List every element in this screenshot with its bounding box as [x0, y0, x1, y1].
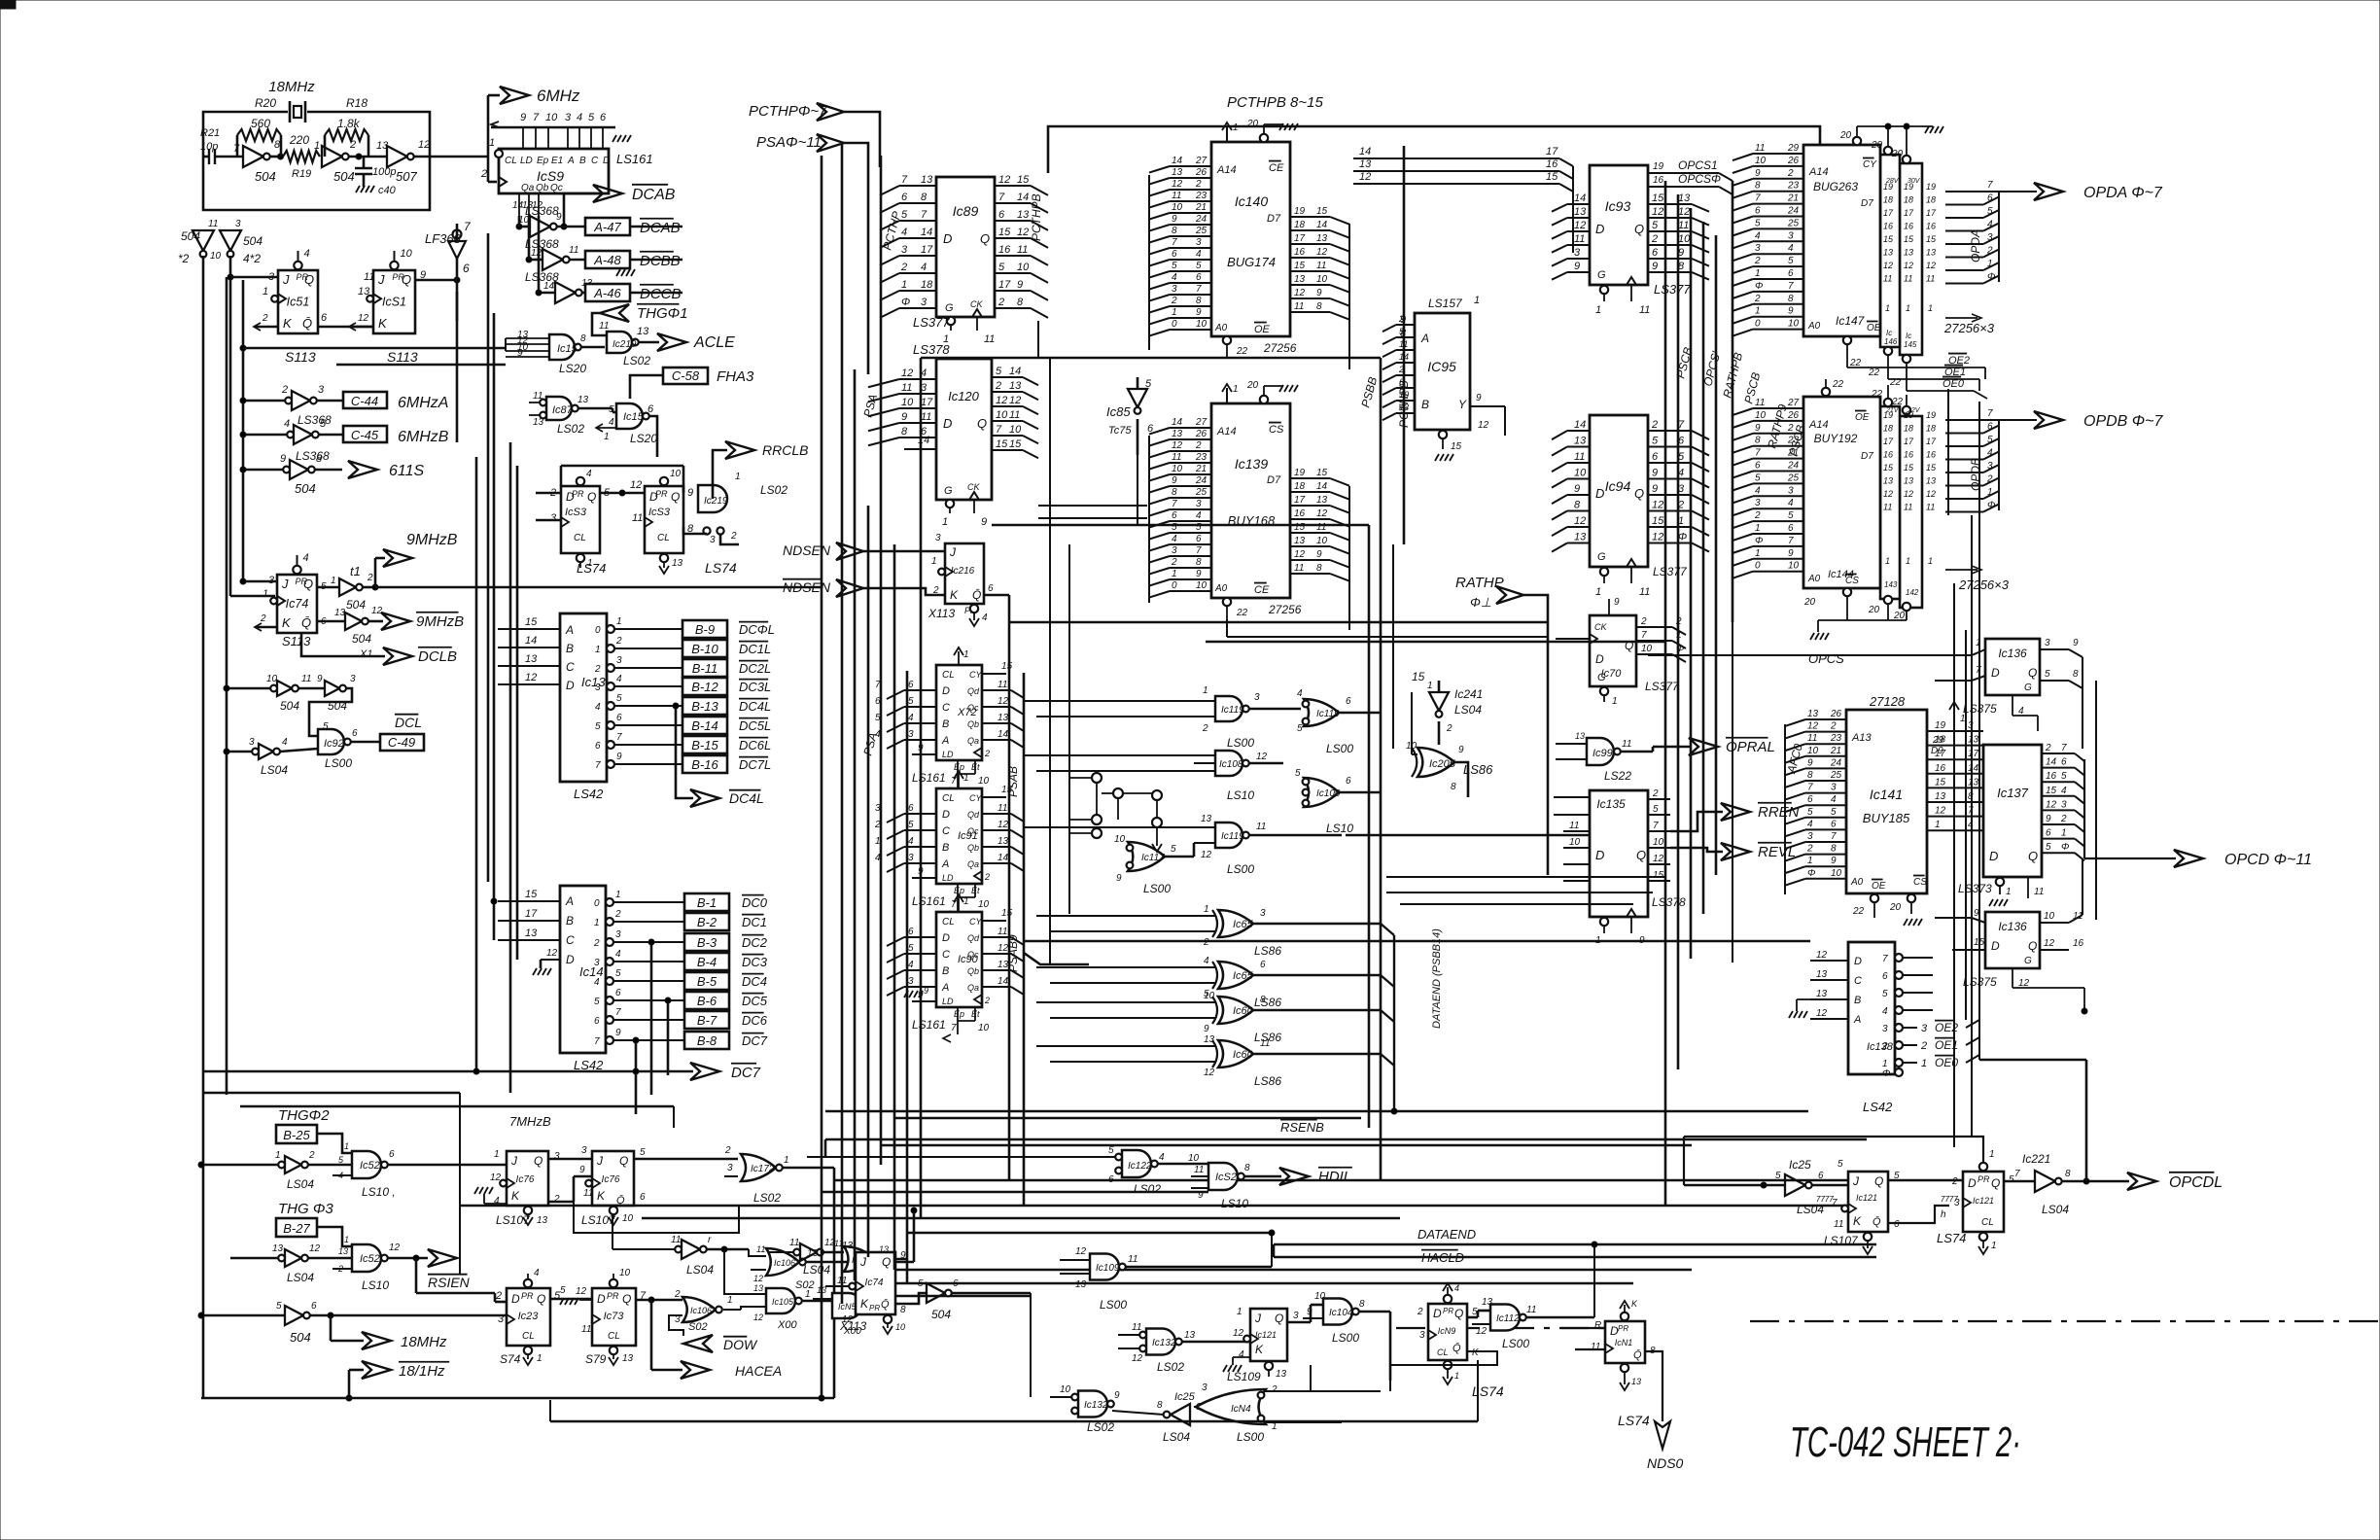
- svg-text:Tc75: Tc75: [1108, 425, 1132, 437]
- svg-text:9: 9: [1316, 549, 1322, 560]
- svg-text:Qb: Qb: [967, 843, 979, 853]
- svg-text:Ic109: Ic109: [1096, 1263, 1120, 1274]
- svg-text:4: 4: [1755, 485, 1761, 496]
- Ic139 left pin ladder: [1170, 427, 1211, 429]
- svg-text:Qc: Qc: [967, 950, 979, 960]
- Ic147 top gnd pins: [1853, 137, 1861, 145]
- svg-text:17: 17: [1294, 233, 1306, 244]
- wire trunk verticals left-center: [475, 457, 478, 1071]
- svg-text:26: 26: [1195, 167, 1207, 178]
- Ic59 CL bubble pin1: [495, 150, 503, 157]
- Ic141 CS bubble pin20: [1907, 894, 1915, 902]
- connector box C-49: [380, 734, 424, 751]
- svg-text:Ep: Ep: [954, 1009, 964, 1019]
- svg-text:1: 1: [314, 140, 320, 152]
- svg-text:2: 2: [615, 636, 622, 647]
- svg-text:OPCD Φ~11: OPCD Φ~11: [2224, 852, 2312, 868]
- svg-text:C-45: C-45: [351, 428, 379, 442]
- decoder Ic14 LS42: [560, 886, 606, 1053]
- output arrow DC7: [612, 1039, 615, 1042]
- svg-text:A-47: A-47: [593, 220, 621, 234]
- or Ic117 LS00: [1128, 842, 1165, 871]
- svg-text:DC5L: DC5L: [739, 718, 771, 733]
- svg-text:Ic74: Ic74: [865, 1277, 884, 1288]
- svg-text:Q: Q: [882, 1255, 891, 1269]
- output arrow HDIL: [1279, 1168, 1309, 1185]
- svg-text:BUY185: BUY185: [1863, 811, 1910, 825]
- svg-text:12: 12: [1883, 261, 1893, 270]
- svg-text:9: 9: [924, 986, 928, 996]
- svg-text:LS00: LS00: [1143, 882, 1171, 895]
- svg-text:507: 507: [396, 169, 417, 184]
- bus trunk verticals right-center: [1664, 181, 1667, 1206]
- wire main osc row: [203, 156, 209, 158]
- BUY192 top pin22 bubbles: [1822, 388, 1830, 396]
- svg-text:6: 6: [1818, 1171, 1824, 1181]
- svg-text:16: 16: [1883, 222, 1893, 231]
- svg-text:2: 2: [1446, 723, 1452, 734]
- svg-text:DC6: DC6: [742, 1013, 768, 1028]
- Ic135 CK chevron pin9: [1627, 909, 1636, 917]
- svg-text:28V: 28V: [1885, 178, 1900, 185]
- svg-text:3: 3: [710, 535, 716, 545]
- svg-text:2: 2: [1754, 256, 1761, 266]
- svg-text:4: 4: [284, 418, 290, 430]
- svg-text:B: B: [1854, 995, 1861, 1006]
- svg-text:12: 12: [630, 479, 642, 491]
- svg-text:6: 6: [988, 583, 994, 594]
- Ic94 left pin ladder: [1567, 430, 1590, 432]
- svg-text:11: 11: [1926, 274, 1935, 284]
- svg-text:LS10 ,: LS10 ,: [362, 1185, 396, 1199]
- svg-text:4: 4: [303, 552, 309, 564]
- svg-text:4: 4: [338, 1171, 343, 1180]
- svg-text:E1: E1: [551, 156, 563, 166]
- inverter 507: [387, 146, 407, 167]
- svg-text:20: 20: [1889, 902, 1902, 913]
- svg-text:Ic121: Ic121: [1856, 1193, 1877, 1203]
- svg-text:15: 15: [1001, 908, 1013, 919]
- svg-text:17: 17: [998, 279, 1011, 291]
- svg-text:3: 3: [235, 219, 241, 229]
- svg-text:25: 25: [1787, 472, 1800, 483]
- svg-text:PR: PR: [572, 489, 584, 499]
- svg-text:3: 3: [1172, 545, 1177, 556]
- Ic70 right stubs: [1636, 626, 1672, 628]
- svg-text:Φ: Φ: [901, 297, 910, 308]
- svg-text:13: 13: [842, 1241, 854, 1251]
- svg-text:Ic216: Ic216: [951, 566, 975, 577]
- svg-text:11: 11: [1294, 563, 1304, 574]
- svg-text:5: 5: [594, 997, 600, 1007]
- rom stack Ic145 third: [1900, 163, 1922, 355]
- svg-text:Q: Q: [619, 1154, 628, 1168]
- svg-text:18: 18: [1926, 195, 1936, 205]
- svg-text:5: 5: [323, 721, 329, 732]
- svg-text:11: 11: [364, 271, 374, 283]
- svg-text:5: 5: [1755, 218, 1761, 228]
- capacitor C41: [208, 149, 210, 164]
- svg-text:1: 1: [1172, 569, 1177, 579]
- svg-text:1: 1: [2006, 887, 2012, 897]
- svg-text:Ic137: Ic137: [1997, 786, 2029, 800]
- svg-text:DCBB: DCBB: [640, 253, 681, 269]
- svg-text:0: 0: [1172, 319, 1177, 330]
- svg-text:OPDA Φ~7: OPDA Φ~7: [2083, 185, 2163, 201]
- svg-text:2: 2: [1171, 557, 1177, 568]
- svg-text:2: 2: [262, 313, 268, 324]
- svg-text:6: 6: [1172, 510, 1177, 521]
- output arrow 18MHz: [330, 1315, 332, 1341]
- svg-text:K: K: [950, 588, 959, 602]
- wire PCTHPB trunk top: [1048, 126, 1820, 173]
- svg-text:LS74: LS74: [1618, 1413, 1650, 1428]
- svg-text:12: 12: [546, 948, 558, 959]
- svg-text:Q: Q: [622, 1292, 631, 1306]
- BUY192 left pin ladder: [1753, 407, 1803, 409]
- svg-text:Qb: Qb: [967, 719, 979, 729]
- svg-text:13: 13: [1816, 969, 1828, 980]
- svg-text:D: D: [566, 679, 575, 692]
- inverter 504 9MHzBbar: [317, 620, 345, 623]
- svg-text:11: 11: [1526, 1305, 1536, 1315]
- svg-text:13: 13: [1009, 380, 1022, 392]
- resistor R18 1.8k: [324, 135, 327, 157]
- output arrow RSIEN: [428, 1249, 457, 1267]
- svg-text:5: 5: [1171, 844, 1176, 855]
- svg-text:Qa: Qa: [521, 183, 535, 193]
- BUY192 bottom pin20 bubbles gnd: [1843, 588, 1851, 596]
- svg-text:1: 1: [494, 1149, 500, 1160]
- svg-text:1: 1: [275, 1150, 281, 1161]
- svg-text:9: 9: [280, 453, 286, 465]
- svg-text:Q: Q: [671, 490, 680, 504]
- svg-text:13: 13: [1172, 429, 1183, 439]
- svg-text:13: 13: [1276, 1369, 1287, 1380]
- wire Ic76 Q cross: [548, 1158, 592, 1161]
- svg-text:10: 10: [996, 409, 1008, 421]
- svg-text:12: 12: [1476, 1326, 1487, 1337]
- svg-text:6: 6: [1196, 534, 1202, 544]
- wire left bus x233: [226, 277, 228, 1095]
- inverter 504 pair B: [298, 687, 325, 690]
- svg-text:16: 16: [2073, 938, 2084, 949]
- svg-text:504: 504: [333, 169, 355, 184]
- svg-text:3: 3: [350, 674, 356, 684]
- svg-text:10: 10: [1316, 536, 1328, 546]
- svg-text:LS377: LS377: [1654, 282, 1691, 297]
- latch Ic136 top LS375: [1985, 639, 2040, 695]
- wire Ic136 bottom collector: [2082, 858, 2083, 915]
- svg-text:17: 17: [1294, 495, 1306, 506]
- svg-text:LS04: LS04: [287, 1177, 314, 1191]
- svg-text:17: 17: [1926, 208, 1937, 218]
- svg-text:2: 2: [1951, 1176, 1958, 1187]
- rom Ic139 BUY168 27256: [1211, 403, 1290, 598]
- nor Ic106b S02: [682, 1297, 716, 1322]
- svg-text:LS377: LS377: [1645, 680, 1680, 693]
- svg-text:4: 4: [1987, 448, 1993, 459]
- svg-text:1.8k: 1.8k: [337, 117, 361, 130]
- svg-text:12: 12: [1574, 220, 1586, 231]
- svg-text:16: 16: [1294, 508, 1306, 519]
- svg-text:LS74: LS74: [1937, 1231, 1966, 1245]
- resistor R19 220: [283, 151, 320, 162]
- flip-flop Ic23 S74: [507, 1288, 550, 1346]
- svg-text:LS161: LS161: [912, 894, 946, 908]
- svg-text:10: 10: [978, 899, 990, 910]
- connector box B-27: [276, 1218, 317, 1237]
- nand Ic108 LS10: [1194, 754, 1215, 756]
- svg-text:PCTHPB 8~15: PCTHPB 8~15: [1227, 94, 1323, 111]
- svg-text:3: 3: [1755, 243, 1761, 254]
- svg-text:18: 18: [1904, 195, 1913, 205]
- svg-text:10: 10: [1406, 741, 1417, 752]
- svg-text:6: 6: [2061, 757, 2067, 768]
- svg-text:DCΦL: DCΦL: [739, 622, 775, 637]
- svg-text:CL: CL: [505, 156, 517, 166]
- svg-text:4: 4: [1196, 249, 1202, 260]
- svg-text:9: 9: [1307, 1307, 1312, 1317]
- svg-text:5: 5: [1788, 256, 1794, 266]
- output arrow REVL: [1721, 843, 1750, 860]
- svg-text:Φ: Φ: [1755, 281, 1763, 292]
- svg-text:Q: Q: [1874, 1174, 1883, 1188]
- svg-text:LS02: LS02: [557, 422, 584, 436]
- svg-text:9: 9: [2073, 638, 2079, 648]
- svg-text:LS368: LS368: [296, 449, 330, 463]
- svg-text:D: D: [1968, 1176, 1977, 1190]
- svg-text:5: 5: [1652, 436, 1659, 447]
- ground at Ic138: [1797, 998, 1810, 1000]
- svg-text:4: 4: [901, 227, 907, 238]
- svg-text:13: 13: [376, 140, 389, 152]
- svg-text:8: 8: [1807, 770, 1813, 781]
- svg-text:LS10: LS10: [1326, 822, 1353, 835]
- svg-text:LS377: LS377: [913, 315, 950, 330]
- svg-text:17: 17: [1926, 437, 1937, 446]
- svg-text:A: A: [1853, 1014, 1861, 1026]
- svg-text:4: 4: [1882, 1006, 1888, 1017]
- svg-text:Q: Q: [1636, 848, 1646, 862]
- output arrow OPDB: [2034, 411, 2063, 429]
- svg-text:24: 24: [1195, 475, 1207, 486]
- svg-text:Ic87: Ic87: [552, 404, 574, 416]
- svg-text:D7: D7: [1861, 198, 1873, 209]
- Ic139 right pin ladder: [1290, 477, 1330, 479]
- svg-text:B: B: [942, 718, 949, 730]
- wire left bus x209: [202, 256, 205, 1398]
- svg-text:C: C: [1854, 975, 1862, 987]
- svg-text:9: 9: [1807, 757, 1813, 768]
- svg-text:D: D: [566, 953, 575, 966]
- wire Ic109 Q to Ic112: [1467, 1316, 1478, 1319]
- svg-text:10: 10: [210, 251, 222, 262]
- svg-text:10: 10: [1831, 868, 1842, 879]
- svg-text:IcN9: IcN9: [1438, 1326, 1456, 1336]
- jumper gnd arrow: [1156, 827, 1158, 846]
- svg-text:8: 8: [1788, 294, 1794, 304]
- svg-text:Q̄: Q̄: [1633, 1348, 1642, 1361]
- wire Ic121 Qb to Ic121b: [1888, 1206, 1949, 1223]
- svg-text:5: 5: [1108, 1145, 1114, 1156]
- wire D input FF: [536, 492, 561, 495]
- nand Ic15 LS20 second: [578, 407, 612, 410]
- svg-text:Ic94: Ic94: [1605, 478, 1631, 494]
- svg-text:CS: CS: [1913, 877, 1927, 888]
- svg-text:11: 11: [2034, 887, 2044, 897]
- svg-text:Ic205: Ic205: [1429, 758, 1456, 770]
- svg-text:LS00: LS00: [1326, 742, 1353, 755]
- svg-text:Φ: Φ: [1882, 1068, 1890, 1079]
- svg-text:14: 14: [1316, 481, 1328, 492]
- output arrow ACLE: [657, 333, 686, 351]
- inverter 504 vertical A: [192, 230, 214, 251]
- svg-text:8: 8: [900, 1305, 906, 1315]
- svg-text:2: 2: [1986, 246, 1993, 257]
- svg-text:DCL: DCL: [395, 715, 422, 730]
- svg-text:CL: CL: [942, 793, 955, 804]
- svg-text:Ic106: Ic106: [690, 1306, 712, 1315]
- svg-text:LS00: LS00: [1237, 1430, 1264, 1444]
- wire LF368 bus: [456, 224, 459, 238]
- svg-text:TC-042 SHEET 2·: TC-042 SHEET 2·: [1790, 1418, 2021, 1466]
- svg-text:2: 2: [932, 585, 939, 596]
- svg-text:15: 15: [1017, 174, 1030, 186]
- svg-text:3: 3: [935, 533, 941, 543]
- svg-text:12: 12: [531, 248, 542, 259]
- Ic137 bubble pin1 gnd: [1996, 878, 2004, 886]
- svg-text:B-25: B-25: [283, 1128, 310, 1142]
- svg-text:9: 9: [1788, 548, 1794, 559]
- svg-text:24: 24: [1787, 206, 1800, 217]
- svg-text:10: 10: [1574, 468, 1587, 479]
- svg-text:8: 8: [580, 333, 586, 344]
- svg-text:8: 8: [1451, 782, 1456, 792]
- svg-text:LS00: LS00: [1332, 1331, 1359, 1345]
- output arrow 9MHzB: [374, 558, 377, 587]
- svg-text:2: 2: [337, 1264, 343, 1274]
- svg-text:2: 2: [1195, 179, 1202, 190]
- svg-text:Qa: Qa: [967, 983, 979, 993]
- svg-text:4: 4: [908, 960, 914, 970]
- svg-text:5: 5: [595, 721, 601, 732]
- register Ic135 LS378: [1590, 790, 1648, 917]
- svg-text:16: 16: [1904, 450, 1913, 460]
- svg-text:Qb: Qb: [967, 966, 979, 976]
- svg-text:A0: A0: [1850, 877, 1864, 888]
- svg-text:Ic73: Ic73: [604, 1311, 625, 1322]
- svg-text:IcS3: IcS3: [648, 507, 671, 518]
- svg-text:4: 4: [609, 417, 614, 428]
- svg-text:CK: CK: [970, 299, 983, 309]
- svg-text:15: 15: [1653, 870, 1664, 881]
- svg-text:3: 3: [594, 958, 600, 968]
- svg-text:1: 1: [1991, 1241, 1997, 1251]
- svg-text:LS04: LS04: [1454, 703, 1482, 717]
- svg-text:18: 18: [1904, 424, 1913, 434]
- svg-text:2: 2: [594, 664, 601, 675]
- wire Ic76b Q to Ic172: [634, 1158, 738, 1161]
- svg-text:10: 10: [1196, 580, 1207, 591]
- wire Q to next D: [600, 492, 645, 495]
- svg-text:2: 2: [997, 297, 1004, 308]
- svg-text:5: 5: [609, 404, 614, 415]
- svg-text:CL: CL: [942, 917, 955, 927]
- svg-text:1: 1: [1755, 523, 1761, 534]
- svg-text:14: 14: [2046, 757, 2057, 768]
- svg-text:C: C: [566, 660, 575, 674]
- counter X72 LS161: [936, 665, 982, 760]
- svg-text:11: 11: [1591, 1342, 1600, 1352]
- svg-text:C: C: [566, 933, 575, 947]
- svg-text:A: A: [565, 623, 574, 637]
- svg-text:LS02: LS02: [753, 1191, 781, 1205]
- wire OPCD vertical 2: [2095, 681, 2097, 920]
- svg-text:LS42: LS42: [1863, 1100, 1893, 1114]
- svg-text:BUY192: BUY192: [1814, 432, 1858, 445]
- svg-text:12: 12: [1201, 850, 1212, 860]
- svg-text:4: 4: [1987, 220, 1993, 230]
- svg-text:11: 11: [1172, 452, 1181, 463]
- svg-text:13: 13: [525, 927, 538, 939]
- svg-text:G: G: [2024, 682, 2032, 693]
- svg-text:PR: PR: [1618, 1324, 1628, 1333]
- svg-text:13: 13: [1575, 731, 1585, 741]
- svg-text:D: D: [1991, 666, 2000, 680]
- svg-text:8: 8: [1316, 301, 1322, 312]
- svg-text:B-10: B-10: [691, 642, 718, 656]
- wire OPCDL vertical: [2085, 1060, 2088, 1181]
- svg-text:1: 1: [615, 890, 621, 900]
- svg-text:D: D: [1595, 848, 1604, 862]
- svg-text:13: 13: [525, 653, 538, 665]
- svg-text:12: 12: [1926, 489, 1936, 499]
- svg-text:3: 3: [249, 737, 255, 748]
- svg-text:5: 5: [1987, 435, 1993, 445]
- svg-text:9: 9: [1614, 597, 1620, 608]
- svg-text:1: 1: [331, 576, 336, 586]
- svg-text:D: D: [603, 156, 610, 166]
- wire Ic172 out long: [783, 1167, 834, 1170]
- svg-text:8: 8: [1831, 844, 1837, 855]
- svg-text:K: K: [282, 615, 292, 630]
- svg-text:Ic89: Ic89: [953, 203, 979, 219]
- crystal X1 18MHz: [289, 101, 292, 122]
- svg-text:12: 12: [1935, 806, 1946, 817]
- svg-text:OE2: OE2: [1948, 355, 1970, 367]
- svg-text:13: 13: [334, 608, 346, 618]
- flip-flop Ic51 S113 second: [373, 270, 415, 333]
- output arrow RREN: [1721, 803, 1750, 821]
- svg-text:LS02: LS02: [623, 354, 650, 367]
- svg-text:B: B: [566, 642, 574, 655]
- counter Ic91 LS161: [936, 788, 982, 884]
- svg-text:J: J: [281, 577, 289, 591]
- svg-text:RRCLB: RRCLB: [762, 442, 808, 458]
- svg-text:4: 4: [595, 702, 601, 713]
- svg-text:DCLB: DCLB: [418, 648, 457, 665]
- svg-text:LS10: LS10: [1221, 1197, 1248, 1210]
- svg-text:9: 9: [1017, 279, 1023, 291]
- svg-text:Ic99: Ic99: [1592, 748, 1613, 759]
- svg-text:13: 13: [1574, 206, 1587, 218]
- Ic121b CL gnd: [1979, 1233, 1987, 1241]
- latch Ic136 bottom LS375: [1985, 912, 2040, 968]
- svg-text:A14: A14: [1216, 426, 1237, 437]
- svg-text:2: 2: [1195, 440, 1202, 451]
- svg-text:C: C: [942, 825, 950, 837]
